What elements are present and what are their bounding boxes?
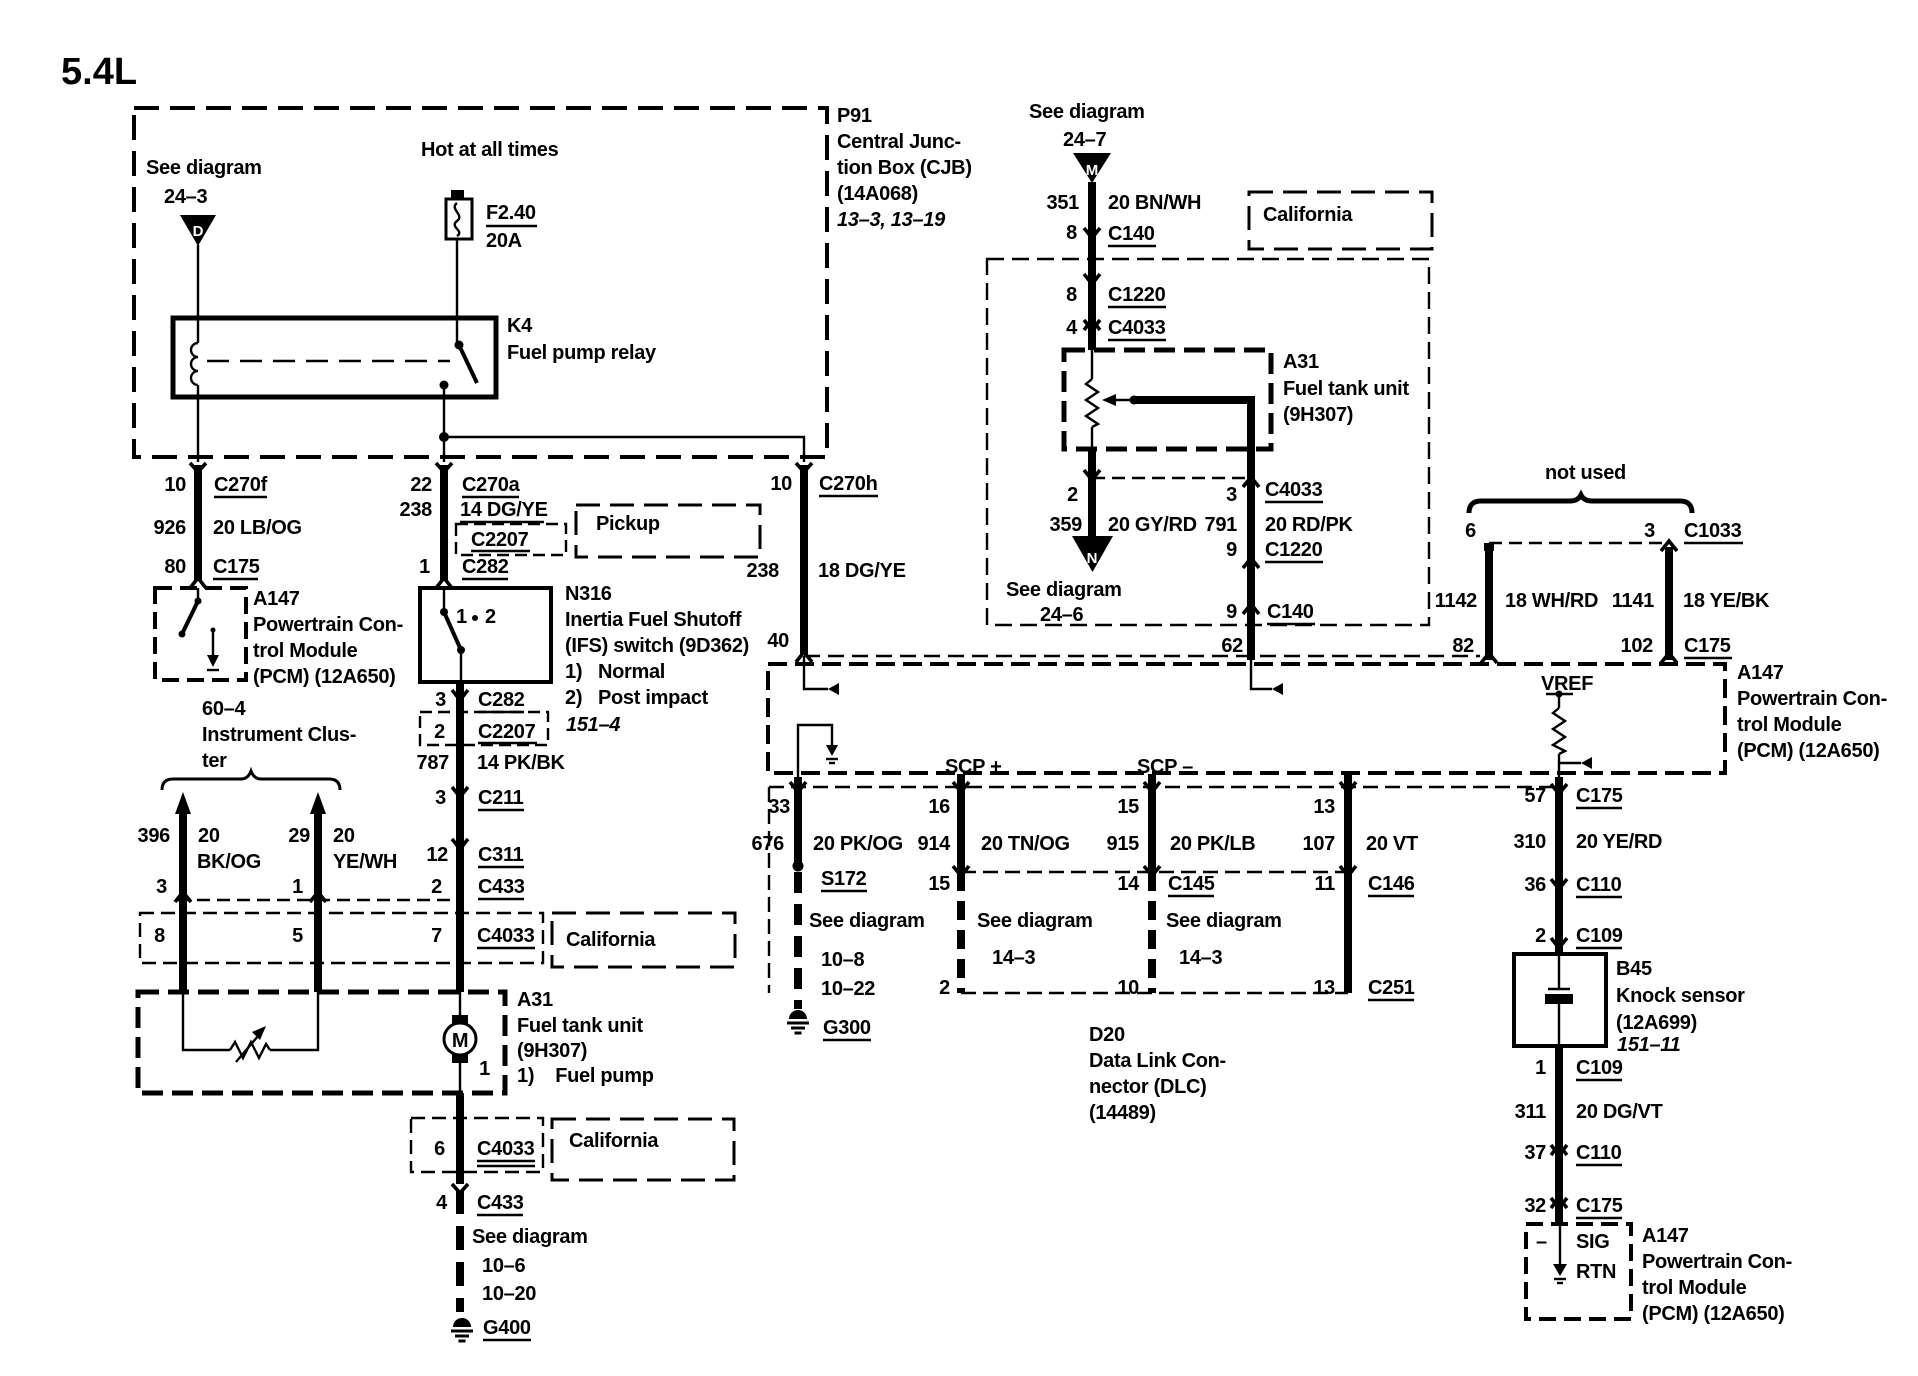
- California box (top right): [1249, 192, 1432, 249]
- PCM A147 box (right, dashed): [768, 664, 1725, 773]
- svg-text:A147: A147: [1737, 662, 1784, 684]
- svg-text:40: 40: [767, 630, 789, 652]
- svg-text:(PCM) (12A650): (PCM) (12A650): [1642, 1303, 1785, 1325]
- svg-text:Pickup: Pickup: [596, 513, 660, 535]
- svg-text:9: 9: [1226, 539, 1237, 561]
- svg-text:20 YE/RD: 20 YE/RD: [1576, 831, 1662, 853]
- svg-text:3: 3: [435, 689, 446, 711]
- DLC bottom dashed line: [961, 992, 1348, 994]
- svg-text:11: 11: [1314, 873, 1335, 895]
- IFS switch N316 box: [420, 588, 551, 682]
- IFS internal switch: [440, 588, 465, 682]
- wire: fuse to relay switch: [456, 239, 458, 345]
- svg-text:2: 2: [485, 606, 496, 628]
- svg-text:C251: C251: [1368, 977, 1415, 999]
- knock sensor B45 box: [1514, 954, 1606, 1046]
- svg-text:RTN: RTN: [1576, 1261, 1616, 1283]
- A147 PCM label (right top): [1737, 662, 1887, 762]
- svg-text:See diagram: See diagram: [146, 157, 262, 179]
- svg-text:3: 3: [156, 876, 167, 898]
- svg-text:13–3, 13–19: 13–3, 13–19: [837, 209, 946, 231]
- off-page connector M: [1073, 153, 1111, 183]
- svg-text:Instrument Clus-: Instrument Clus-: [202, 724, 356, 746]
- svg-text:(12A699): (12A699): [1616, 1012, 1697, 1034]
- svg-text:See diagram: See diagram: [1166, 910, 1282, 932]
- svg-text:A147: A147: [1642, 1225, 1689, 1247]
- svg-text:10–6: 10–6: [482, 1255, 525, 1277]
- svg-text:151–11: 151–11: [1617, 1034, 1681, 1056]
- svg-text:62: 62: [1221, 635, 1243, 657]
- instrument cluster brace: [162, 771, 340, 790]
- svg-text:–: –: [1536, 1231, 1547, 1253]
- wire 351 20 BN/WH: [1088, 182, 1096, 350]
- svg-text:C4033: C4033: [477, 925, 535, 947]
- fuel pump motor M: [444, 1015, 476, 1063]
- svg-text:1) Fuel pump: 1) Fuel pump: [517, 1065, 654, 1087]
- svg-text:18 YE/BK: 18 YE/BK: [1683, 590, 1770, 612]
- svg-text:1: 1: [1535, 1057, 1546, 1079]
- svg-text:(PCM) (12A650): (PCM) (12A650): [253, 666, 396, 688]
- ground G300: [787, 1010, 809, 1033]
- svg-text:9: 9: [1226, 601, 1237, 623]
- svg-text:14 PK/BK: 14 PK/BK: [477, 752, 565, 774]
- svg-text:C211: C211: [478, 787, 524, 809]
- svg-text:Fuel tank unit: Fuel tank unit: [1283, 378, 1409, 400]
- svg-text:YE/WH: YE/WH: [333, 851, 397, 873]
- svg-text:Fuel pump relay: Fuel pump relay: [507, 342, 657, 364]
- svg-text:C175: C175: [1684, 635, 1731, 657]
- wire: coil to box bottom: [197, 385, 199, 462]
- wire below IFS: [456, 684, 464, 905]
- svg-text:2) Post impact: 2) Post impact: [565, 687, 709, 709]
- svg-text:1: 1: [456, 606, 467, 628]
- svg-text:29: 29: [288, 825, 310, 847]
- svg-text:7: 7: [431, 925, 442, 947]
- svg-text:14–3: 14–3: [992, 947, 1035, 969]
- svg-text:Data Link Con-: Data Link Con-: [1089, 1050, 1226, 1072]
- svg-text:2: 2: [939, 977, 950, 999]
- VREF internal stub: [1559, 762, 1581, 764]
- svg-text:1: 1: [479, 1058, 490, 1080]
- svg-text:311: 311: [1515, 1101, 1547, 1123]
- DLC region left dashed edge: [768, 787, 770, 993]
- DLC wire to pin 2 (dashed heavy): [957, 872, 965, 993]
- svg-text:C2207: C2207: [478, 721, 536, 743]
- PCM internal driver ground arrow: [207, 628, 219, 671]
- DLC wire SCP+ pin 16: [953, 782, 969, 792]
- svg-text:not used: not used: [1545, 462, 1626, 484]
- not used wire 1142 18 WH/RD: [1484, 543, 1494, 551]
- svg-text:24–7: 24–7: [1063, 129, 1106, 151]
- svg-text:359: 359: [1050, 514, 1083, 536]
- svg-text:A31: A31: [1283, 351, 1319, 373]
- svg-text:C270a: C270a: [462, 474, 521, 496]
- junction: [439, 432, 449, 442]
- svg-text:24–6: 24–6: [1040, 604, 1083, 626]
- connector C145 pin 14: [1144, 866, 1160, 876]
- svg-text:G300: G300: [823, 1017, 871, 1039]
- connector C311 pin 12: [452, 839, 468, 849]
- splice S172: [793, 861, 804, 872]
- PCM internal ground (S172 branch): [798, 725, 838, 786]
- svg-text:(9H307): (9H307): [1283, 404, 1353, 426]
- wire 926 20 LB/OG: [194, 465, 202, 580]
- svg-text:C1033: C1033: [1684, 520, 1742, 542]
- connector C211 pin 3: [452, 787, 468, 797]
- sender wiper arrow: [1102, 394, 1139, 406]
- connector C110 pin 37: [1551, 1145, 1567, 1155]
- relay K4 coil: [191, 343, 198, 385]
- svg-text:16: 16: [928, 796, 950, 818]
- wire: switch to junction: [443, 385, 445, 462]
- wiper wire to pin 3: [1134, 400, 1251, 449]
- svg-text:10–20: 10–20: [482, 1283, 536, 1305]
- A31 internal sender wires: [183, 992, 230, 1050]
- svg-text:102: 102: [1621, 635, 1654, 657]
- connector C110 pin 36: [1551, 879, 1567, 889]
- pickup dashed box: [576, 505, 760, 557]
- ground G400: [451, 1318, 473, 1341]
- svg-text:24–3: 24–3: [164, 186, 207, 208]
- connector C270h pin 10: [796, 463, 812, 472]
- wire 238 18 DG/YE: [800, 465, 808, 654]
- svg-text:C2207: C2207: [471, 529, 529, 551]
- svg-text:82: 82: [1452, 635, 1474, 657]
- svg-text:(14A068): (14A068): [837, 183, 918, 205]
- svg-text:22: 22: [410, 474, 432, 496]
- svg-text:California: California: [569, 1130, 659, 1152]
- svg-text:8: 8: [1066, 284, 1077, 306]
- connector C282 pin 3: [452, 690, 468, 700]
- wire 238 14 DG/YE: [440, 465, 448, 580]
- central junction box P91 (dashed outline): [134, 108, 827, 457]
- svg-text:C4033: C4033: [1265, 479, 1323, 501]
- knock sensor element: [1545, 954, 1573, 1046]
- svg-text:20 PK/LB: 20 PK/LB: [1170, 833, 1255, 855]
- fuel tank unit A31 box (left): [138, 992, 505, 1093]
- connector C146 pin 11: [1340, 866, 1356, 876]
- wire into motor: [456, 900, 464, 992]
- VREF supply tick: [1546, 693, 1573, 695]
- cluster wire 396 20 BK/OG: [175, 792, 191, 992]
- DLC pin 15 (left): [953, 866, 969, 876]
- svg-text:Powertrain Con-: Powertrain Con-: [253, 614, 403, 636]
- svg-text:C311: C311: [478, 844, 524, 866]
- svg-text:14: 14: [1117, 873, 1140, 895]
- D20 DLC label: [1089, 1024, 1226, 1124]
- B45 knock sensor label: [1616, 958, 1745, 1056]
- A31 right sender resistor: [1086, 350, 1098, 449]
- svg-text:20 RD/PK: 20 RD/PK: [1265, 514, 1353, 536]
- svg-text:California: California: [1263, 204, 1353, 226]
- svg-text:C109: C109: [1576, 1057, 1623, 1079]
- svg-text:13: 13: [1313, 977, 1335, 999]
- connector C433 pin 4: [452, 1184, 468, 1193]
- svg-text:ter: ter: [202, 750, 227, 772]
- svg-text:2: 2: [1067, 484, 1078, 506]
- svg-text:791: 791: [1205, 514, 1238, 536]
- svg-text:SIG: SIG: [1576, 1231, 1610, 1253]
- svg-text:20A: 20A: [486, 230, 522, 252]
- svg-text:14–3: 14–3: [1179, 947, 1222, 969]
- connector C2207 box (upper): [456, 524, 566, 555]
- svg-text:SCP –: SCP –: [1137, 756, 1193, 778]
- svg-text:20 TN/OG: 20 TN/OG: [981, 833, 1070, 855]
- svg-text:See diagram: See diagram: [809, 910, 925, 932]
- svg-text:4: 4: [1066, 317, 1078, 339]
- svg-text:BK/OG: BK/OG: [197, 851, 261, 873]
- svg-text:C270h: C270h: [819, 473, 878, 495]
- svg-text:S172: S172: [821, 868, 867, 890]
- svg-text:20 LB/OG: 20 LB/OG: [213, 517, 302, 539]
- svg-text:3: 3: [435, 787, 446, 809]
- DLC region top dashed line: [769, 786, 1553, 788]
- svg-text:See diagram: See diagram: [1029, 101, 1145, 123]
- svg-text:C433: C433: [477, 1192, 524, 1214]
- svg-text:2: 2: [434, 721, 445, 743]
- PCM internal stub pin 62: [1251, 660, 1272, 689]
- svg-text:12: 12: [426, 844, 448, 866]
- svg-text:20: 20: [333, 825, 355, 847]
- svg-text:C4033: C4033: [477, 1138, 535, 1160]
- svg-text:A31: A31: [517, 989, 553, 1011]
- svg-text:1: 1: [419, 556, 430, 578]
- svg-text:SCP +: SCP +: [945, 756, 1002, 778]
- svg-text:Knock sensor: Knock sensor: [1616, 985, 1745, 1007]
- A31 label (left): [517, 989, 654, 1087]
- svg-text:20 GY/RD: 20 GY/RD: [1108, 514, 1197, 536]
- wire: D to relay coil: [197, 245, 199, 343]
- svg-text:C146: C146: [1368, 873, 1415, 895]
- svg-text:nector (DLC): nector (DLC): [1089, 1076, 1207, 1098]
- svg-text:C433: C433: [478, 876, 525, 898]
- svg-text:2: 2: [1535, 925, 1546, 947]
- connector C4033 pin 6 box: [411, 1118, 543, 1172]
- svg-text:C110: C110: [1576, 874, 1622, 896]
- wire to G400 (dashed heavy): [456, 1190, 464, 1312]
- svg-text:Inertia Fuel Shutoff: Inertia Fuel Shutoff: [565, 609, 742, 631]
- svg-text:13: 13: [1313, 796, 1335, 818]
- svg-text:787: 787: [417, 752, 450, 774]
- svg-text:See diagram: See diagram: [472, 1226, 588, 1248]
- svg-text:B45: B45: [1616, 958, 1652, 980]
- svg-text:(14489): (14489): [1089, 1102, 1156, 1124]
- A31 label (right): [1283, 351, 1409, 426]
- VREF resistor: [1553, 694, 1565, 779]
- svg-text:15: 15: [928, 873, 950, 895]
- svg-text:33: 33: [768, 796, 790, 818]
- svg-text:60–4: 60–4: [202, 698, 246, 720]
- svg-text:926: 926: [154, 517, 187, 539]
- svg-text:57: 57: [1524, 785, 1546, 807]
- svg-text:351: 351: [1047, 192, 1080, 214]
- A31 rheostat (fuel level sender): [230, 1042, 270, 1058]
- svg-text:6: 6: [434, 1138, 445, 1160]
- svg-text:trol Module: trol Module: [1642, 1277, 1747, 1299]
- cluster wire 29 20 YE/WH: [310, 792, 326, 992]
- wire S172 to G300 (dashed heavy): [794, 872, 802, 1009]
- svg-text:20 DG/VT: 20 DG/VT: [1576, 1101, 1663, 1123]
- wire below knock sensor: [1555, 1046, 1563, 1224]
- svg-text:5.4L: 5.4L: [61, 51, 137, 93]
- DLC wire SCP- pin 15: [1144, 782, 1160, 792]
- svg-text:3: 3: [1644, 520, 1655, 542]
- svg-text:Hot at all times: Hot at all times: [421, 139, 559, 161]
- svg-text:915: 915: [1107, 833, 1140, 855]
- svg-text:14 DG/YE: 14 DG/YE: [460, 499, 548, 521]
- svg-text:N: N: [1087, 550, 1098, 567]
- off-page connector N: [1072, 536, 1113, 572]
- wire: junction to C270h drop: [444, 437, 804, 462]
- svg-text:32: 32: [1524, 1195, 1546, 1217]
- wire motor to box bottom: [459, 1063, 461, 1093]
- connector C109 pin 2: [1551, 938, 1567, 948]
- connector C175 pin 57: [1551, 784, 1567, 794]
- PCM internal stub pin 40: [804, 656, 828, 689]
- svg-text:80: 80: [164, 556, 186, 578]
- svg-text:Powertrain Con-: Powertrain Con-: [1642, 1251, 1792, 1273]
- svg-text:10: 10: [164, 474, 186, 496]
- connector C270f pin 10: [190, 463, 206, 472]
- svg-text:Central Junc-: Central Junc-: [837, 131, 961, 153]
- svg-text:10–8: 10–8: [821, 949, 864, 971]
- svg-text:151–4: 151–4: [566, 714, 620, 736]
- svg-text:C270f: C270f: [214, 474, 268, 496]
- svg-text:107: 107: [1303, 833, 1336, 855]
- svg-text:C282: C282: [478, 689, 525, 711]
- svg-text:10–22: 10–22: [821, 978, 875, 1000]
- not used wire 1141 18 YE/BK: [1661, 541, 1677, 551]
- svg-text:(9H307): (9H307): [517, 1040, 587, 1062]
- svg-text:M: M: [1086, 162, 1099, 179]
- P91 CJB label: [837, 105, 972, 231]
- svg-text:3: 3: [1226, 484, 1237, 506]
- svg-text:1141: 1141: [1612, 590, 1654, 612]
- svg-text:C110: C110: [1576, 1142, 1622, 1164]
- svg-text:238: 238: [400, 499, 433, 521]
- svg-text:(IFS) switch (9D362): (IFS) switch (9D362): [565, 635, 749, 657]
- svg-text:P91: P91: [837, 105, 872, 127]
- svg-text:M: M: [452, 1030, 468, 1052]
- connector C175 pin 32: [1551, 1198, 1567, 1208]
- fuse F2.40 20A: [446, 190, 472, 239]
- svg-text:1: 1: [292, 876, 303, 898]
- instrument cluster label 60-4: [202, 698, 356, 772]
- svg-text:C1220: C1220: [1108, 284, 1166, 306]
- svg-text:6: 6: [1465, 520, 1476, 542]
- svg-text:20: 20: [198, 825, 220, 847]
- svg-text:2: 2: [431, 876, 442, 898]
- A147 PCM label (bottom right): [1642, 1225, 1792, 1325]
- connector C4033 pins 2 and 3: [1084, 470, 1100, 480]
- svg-text:396: 396: [138, 825, 171, 847]
- svg-text:C109: C109: [1576, 925, 1623, 947]
- svg-text:Fuel tank unit: Fuel tank unit: [517, 1015, 643, 1037]
- svg-text:310: 310: [1514, 831, 1547, 853]
- svg-text:N316: N316: [565, 583, 612, 605]
- cluster connector dashed line: [177, 899, 460, 901]
- relay K4 box: [173, 318, 496, 397]
- svg-text:C140: C140: [1267, 601, 1314, 623]
- svg-text:C175: C175: [1576, 785, 1623, 807]
- svg-text:5: 5: [292, 925, 303, 947]
- California box (bottom): [552, 1119, 734, 1180]
- svg-text:10: 10: [770, 473, 792, 495]
- PCM A147 box (left): [155, 588, 246, 680]
- svg-text:238: 238: [747, 560, 780, 582]
- svg-text:676: 676: [752, 833, 785, 855]
- svg-text:18 DG/YE: 18 DG/YE: [818, 560, 906, 582]
- svg-text:C1220: C1220: [1265, 539, 1323, 561]
- svg-text:20 PK/OG: 20 PK/OG: [813, 833, 903, 855]
- relay K4 switch: [440, 341, 478, 390]
- svg-text:4: 4: [436, 1192, 448, 1214]
- fuel tank region dashed box: [987, 259, 1429, 625]
- svg-text:C282: C282: [462, 556, 509, 578]
- connector C270a pin 22: [436, 463, 452, 472]
- svg-text:37: 37: [1524, 1142, 1546, 1164]
- svg-text:18 WH/RD: 18 WH/RD: [1505, 590, 1598, 612]
- svg-text:D: D: [193, 223, 204, 240]
- rheostat arrow: [236, 1026, 266, 1062]
- connector C4033 pin row box: [140, 913, 543, 963]
- DLC wire to pin 10 (dashed heavy): [1148, 872, 1156, 993]
- svg-text:1142: 1142: [1435, 590, 1477, 612]
- svg-text:(PCM) (12A650): (PCM) (12A650): [1737, 740, 1880, 762]
- svg-text:trol Module: trol Module: [1737, 714, 1842, 736]
- svg-text:8: 8: [154, 925, 165, 947]
- svg-text:See diagram: See diagram: [1006, 579, 1122, 601]
- off-page connector D: [180, 215, 216, 246]
- svg-text:California: California: [566, 929, 656, 951]
- PCM top bus thin dashed line: [804, 655, 1480, 657]
- relay internal dashed link: [207, 360, 450, 362]
- svg-text:36: 36: [1524, 874, 1546, 896]
- svg-text:10: 10: [1117, 977, 1139, 999]
- PCM internal ground arrow (SIG RTN): [1553, 1224, 1567, 1283]
- svg-text:K4: K4: [507, 315, 533, 337]
- svg-text:See diagram: See diagram: [977, 910, 1093, 932]
- svg-text:VREF: VREF: [1541, 673, 1593, 695]
- svg-text:20 VT: 20 VT: [1366, 833, 1418, 855]
- svg-text:Powertrain Con-: Powertrain Con-: [1737, 688, 1887, 710]
- PCM internal switch: [179, 588, 202, 638]
- not used brace: [1469, 495, 1692, 513]
- svg-text:15: 15: [1117, 796, 1139, 818]
- svg-text:F2.40: F2.40: [486, 202, 536, 224]
- svg-text:C145: C145: [1168, 873, 1215, 895]
- DLC cell divider dashed line: [961, 871, 1348, 873]
- svg-text:914: 914: [918, 833, 952, 855]
- svg-text:C140: C140: [1108, 223, 1155, 245]
- wire 791 20 RD/PK: [1247, 449, 1255, 660]
- splice wire S172 pin 33: [790, 782, 806, 792]
- connector C2207 box (lower) pin 2: [420, 712, 548, 745]
- not used jumper dashed top: [1489, 542, 1669, 544]
- svg-text:tion Box (CJB): tion Box (CJB): [837, 157, 972, 179]
- svg-text:1) Normal: 1) Normal: [565, 661, 665, 683]
- svg-text:D20: D20: [1089, 1024, 1125, 1046]
- svg-text:8: 8: [1066, 222, 1077, 244]
- California box (row): [552, 913, 735, 967]
- wire A31 to N: [1088, 449, 1096, 540]
- svg-text:20 BN/WH: 20 BN/WH: [1108, 192, 1201, 214]
- svg-text:C175: C175: [1576, 1195, 1623, 1217]
- N316 IFS label: [565, 583, 749, 736]
- fuel tank unit A31 box (right): [1064, 350, 1271, 449]
- svg-text:trol Module: trol Module: [253, 640, 358, 662]
- A147 PCM label (left): [253, 588, 403, 688]
